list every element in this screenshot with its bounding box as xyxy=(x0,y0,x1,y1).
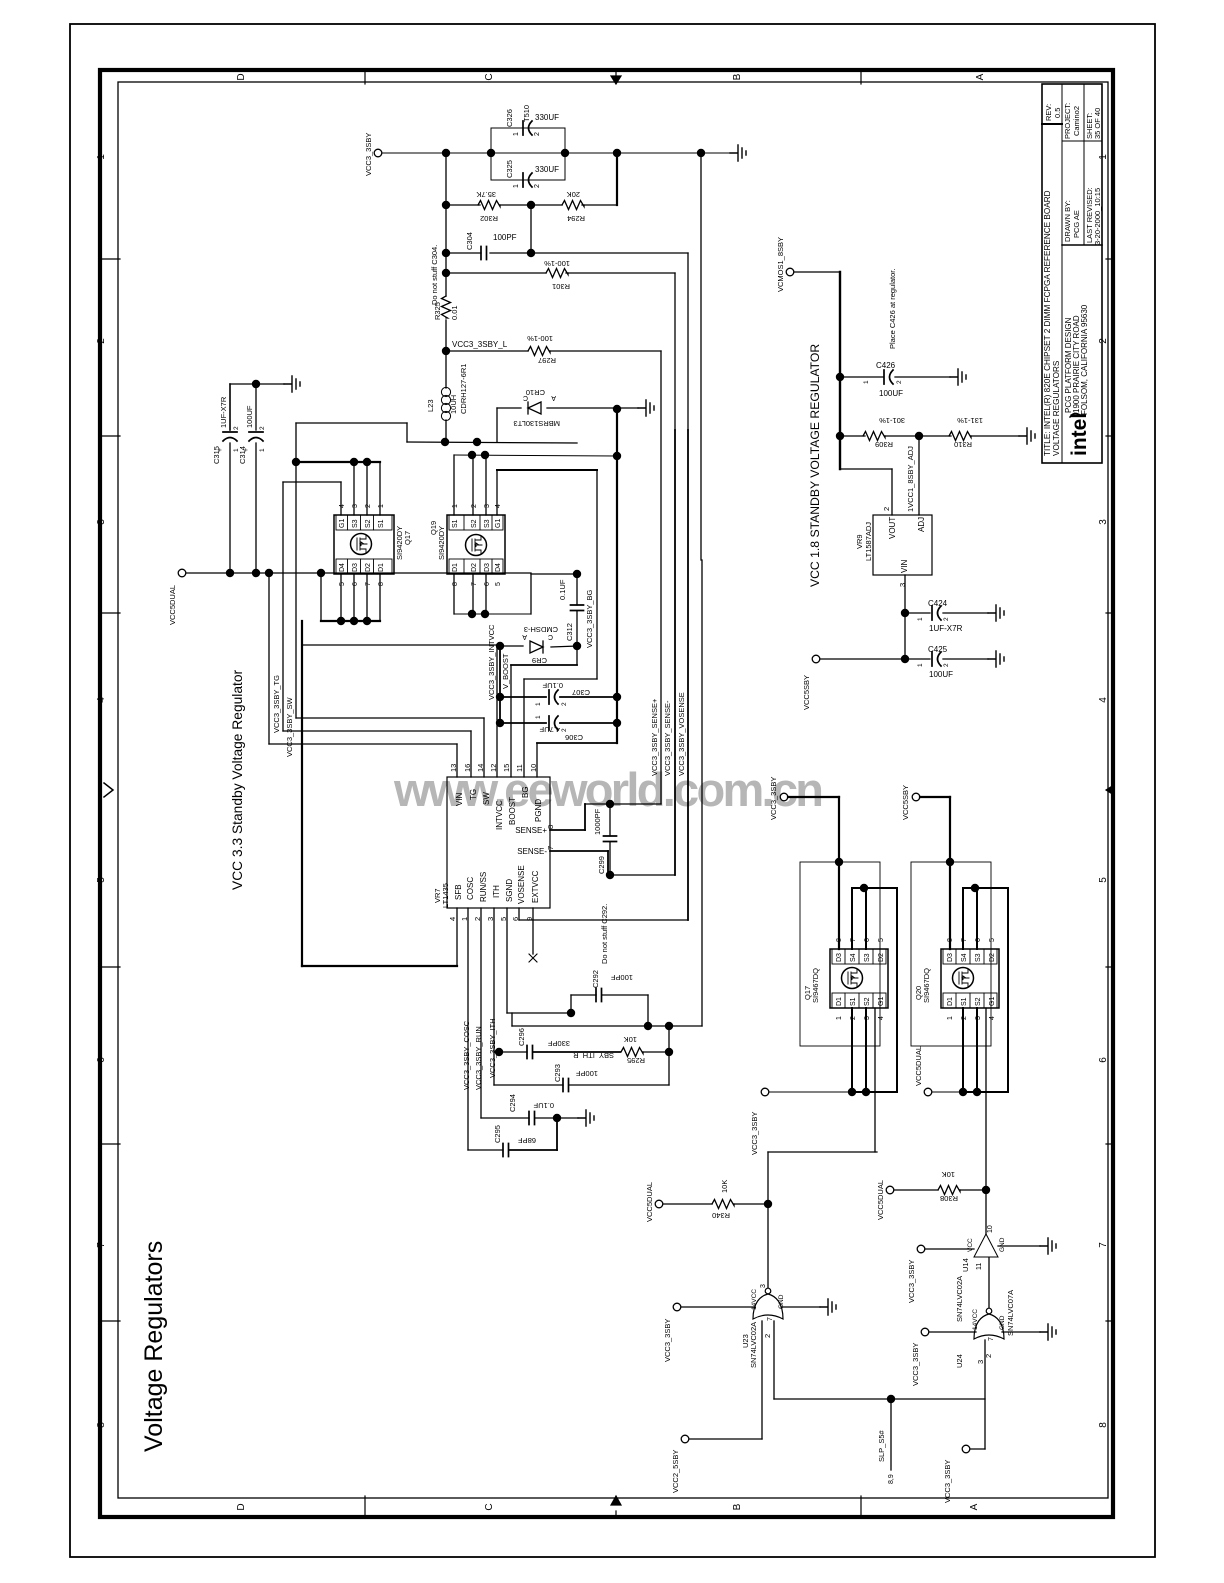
svg-text:VCC5DUAL: VCC5DUAL xyxy=(168,585,177,625)
svg-text:2: 2 xyxy=(534,132,541,136)
svg-text:S2: S2 xyxy=(864,997,871,1006)
capacitor C299 1000PF xyxy=(609,804,611,836)
svg-text:PROJECT:: PROJECT: xyxy=(1063,103,1072,139)
svg-text:2: 2 xyxy=(943,617,950,621)
svg-text:131-1%: 131-1% xyxy=(957,416,983,425)
svg-text:8: 8 xyxy=(452,582,459,586)
wire ADJ xyxy=(918,436,920,515)
wire EXTVCC no-connect xyxy=(532,908,534,954)
svg-text:CR9: CR9 xyxy=(532,656,547,665)
svg-text:VCC5SBY: VCC5SBY xyxy=(802,675,811,710)
svg-text:4: 4 xyxy=(1098,697,1109,703)
svg-text:330UF: 330UF xyxy=(535,113,559,122)
svg-text:VCC3_3SBY_L: VCC3_3SBY_L xyxy=(452,340,508,349)
wire PGND ground column xyxy=(616,409,618,743)
svg-text:VCC 3.3 Standby Voltage Regula: VCC 3.3 Standby Voltage Regulator xyxy=(230,669,245,890)
node VCC5DUAL at R340 xyxy=(655,1200,663,1208)
svg-text:15: 15 xyxy=(502,764,511,772)
capacitor C307 0.1UF xyxy=(500,696,546,698)
svg-text:2: 2 xyxy=(365,504,372,508)
wire BOOST row xyxy=(576,646,578,665)
node VCC3_3SBY at U24 input xyxy=(921,1328,929,1336)
svg-text:0.1UF: 0.1UF xyxy=(533,1101,554,1110)
svg-text:1: 1 xyxy=(513,184,520,188)
svg-text:1UF-X7R: 1UF-X7R xyxy=(219,396,228,428)
svg-text:REV:: REV: xyxy=(1044,104,1053,121)
svg-text:U14: U14 xyxy=(961,1258,970,1272)
svg-text:SW: SW xyxy=(482,792,491,805)
svg-text:10K: 10K xyxy=(942,1170,955,1179)
svg-text:VCC3_3SBY_TG: VCC3_3SBY_TG xyxy=(272,675,281,733)
svg-text:D3: D3 xyxy=(352,563,359,572)
ground at C315/C314 xyxy=(284,376,300,392)
long vertical net wire x702 xyxy=(700,153,702,560)
svg-text:SGND: SGND xyxy=(505,879,514,902)
svg-text:G1: G1 xyxy=(495,519,502,528)
svg-text:4: 4 xyxy=(989,1016,996,1020)
svg-text:1: 1 xyxy=(947,1016,954,1020)
wire VIN from VCC5DUAL xyxy=(268,573,270,744)
svg-text:2: 2 xyxy=(882,507,891,511)
node VCC3_3SBY at Q17 top xyxy=(780,793,788,801)
op-amp U VR7 LT1435 box xyxy=(447,777,550,908)
svg-text:CMDSH-3: CMDSH-3 xyxy=(524,625,558,634)
junction dot CR10 ground xyxy=(613,405,621,413)
wire U24 input 2 xyxy=(929,1331,976,1333)
svg-text:100-1%: 100-1% xyxy=(544,259,570,268)
wire Q20 source loop xyxy=(960,888,1008,1092)
capacitor C295 68PF xyxy=(467,908,469,1150)
svg-text:VCC3_3SBY: VCC3_3SBY xyxy=(907,1260,916,1303)
svg-text:5: 5 xyxy=(1098,877,1109,883)
svg-text:R308: R308 xyxy=(940,1194,958,1203)
transistor Q20 SI9467DQ outer box xyxy=(911,862,991,1046)
wire U23 input 1 xyxy=(681,1306,755,1308)
svg-text:R301: R301 xyxy=(552,282,570,291)
svg-text:1: 1 xyxy=(1098,154,1109,160)
svg-text:6: 6 xyxy=(484,582,491,586)
wire U24 output to U14 xyxy=(988,1258,990,1308)
wire VOSENSE row xyxy=(518,908,520,920)
svg-text:12: 12 xyxy=(489,764,498,772)
svg-text:C293: C293 xyxy=(553,1064,562,1082)
svg-text:SI9420DY: SI9420DY xyxy=(437,526,446,560)
svg-text:4: 4 xyxy=(96,697,107,703)
svg-text:8,9: 8,9 xyxy=(888,1474,895,1484)
wire SENSE- to C299 xyxy=(550,850,608,852)
svg-text:5: 5 xyxy=(495,582,502,586)
svg-text:8: 8 xyxy=(96,1422,107,1428)
svg-text:VCC5SBY: VCC5SBY xyxy=(901,785,910,820)
svg-text:1000PF: 1000PF xyxy=(593,808,602,835)
svg-text:D: D xyxy=(236,1503,247,1510)
svg-text:7: 7 xyxy=(988,1337,995,1341)
svg-text:11: 11 xyxy=(976,1263,983,1270)
inductor L23 10UH CDRH127-6R1 xyxy=(445,351,447,388)
net SLP_S5# xyxy=(890,1399,892,1470)
svg-text:CR10: CR10 xyxy=(526,388,545,397)
svg-text:1: 1 xyxy=(836,1016,843,1020)
svg-text:10: 10 xyxy=(987,1225,994,1233)
wire R297 row xyxy=(446,350,528,352)
svg-text:16: 16 xyxy=(463,764,472,772)
svg-text:100PF: 100PF xyxy=(493,233,517,242)
svg-text:SN74LVC02A: SN74LVC02A xyxy=(955,1276,964,1322)
regulator VR9 LT1587ADJ box xyxy=(873,515,932,575)
svg-text:S1: S1 xyxy=(378,519,385,528)
frame tick marks xyxy=(100,258,120,260)
svg-text:PGND: PGND xyxy=(534,799,543,822)
wire Q20 gate junction to U14 xyxy=(985,1190,987,1234)
capacitor C293 100PF xyxy=(493,1052,495,1085)
capacitor C314 100UF xyxy=(255,384,257,430)
capacitor C424 1UF-X7R xyxy=(905,612,930,614)
svg-text:VCC3_3SBY_INTVCC: VCC3_3SBY_INTVCC xyxy=(487,624,496,700)
svg-text:5: 5 xyxy=(989,938,996,942)
svg-text:VCMOS1_8SBY: VCMOS1_8SBY xyxy=(776,237,785,292)
svg-text:2: 2 xyxy=(534,184,541,188)
svg-text:7: 7 xyxy=(365,582,372,586)
svg-text:1: 1 xyxy=(917,663,924,667)
wire Q17 source loop xyxy=(849,888,897,1092)
svg-text:Voltage Regulators: Voltage Regulators xyxy=(140,1241,168,1452)
svg-text:C326: C326 xyxy=(505,109,514,127)
capacitor C306 4.7UF xyxy=(500,722,546,724)
svg-text:2: 2 xyxy=(96,338,107,344)
svg-text:100UF: 100UF xyxy=(929,670,953,679)
resistor R309 301-1% xyxy=(863,432,885,441)
svg-text:+: + xyxy=(217,448,224,452)
svg-text:+: + xyxy=(243,448,250,452)
node VCC5SBY xyxy=(812,655,820,663)
svg-text:2: 2 xyxy=(943,663,950,667)
svg-text:VCC3_3SBY_SENSE-: VCC3_3SBY_SENSE- xyxy=(663,700,672,776)
svg-text:VCC: VCC xyxy=(967,1238,974,1252)
svg-text:D4: D4 xyxy=(339,563,346,572)
svg-text:COSC: COSC xyxy=(466,877,475,900)
long vertical net wire SENSE+ x661 xyxy=(660,351,662,804)
wire Q19 drain to C312 xyxy=(530,574,532,614)
svg-text:D2: D2 xyxy=(365,563,372,572)
ground at CR10 xyxy=(638,400,654,416)
resistor R302 35.7K xyxy=(478,201,500,210)
svg-text:D3: D3 xyxy=(947,953,954,962)
svg-text:EXTVCC: EXTVCC xyxy=(531,870,540,903)
svg-text:100UF: 100UF xyxy=(245,405,254,428)
svg-text:C312: C312 xyxy=(565,623,574,641)
svg-text:V_BOOST: V_BOOST xyxy=(501,653,510,689)
svg-text:13: 13 xyxy=(449,764,458,772)
node VCC3_3SBY at Q17 bottom xyxy=(761,1088,769,1096)
svg-text:330UF: 330UF xyxy=(535,165,559,174)
junction dot R302/R294 xyxy=(527,201,535,209)
svg-text:PCG AE: PCG AE xyxy=(1072,210,1081,238)
buffer U14 SN74LVC07A xyxy=(974,1234,998,1257)
svg-text:R325: R325 xyxy=(433,302,442,320)
svg-text:C292: C292 xyxy=(591,970,600,988)
resistor R340 10K xyxy=(663,1203,712,1205)
resistor R294 20K xyxy=(562,201,584,210)
svg-text:0.01: 0.01 xyxy=(450,305,459,320)
svg-text:G1: G1 xyxy=(878,997,885,1006)
svg-text:R295: R295 xyxy=(627,1056,645,1065)
svg-text:A: A xyxy=(969,1503,980,1510)
svg-text:Do not stuff C304.: Do not stuff C304. xyxy=(430,245,439,305)
svg-text:3-20-2000_10:15: 3-20-2000_10:15 xyxy=(1093,188,1102,245)
svg-text:SENSE-: SENSE- xyxy=(517,847,547,856)
svg-text:SN74LVC07A: SN74LVC07A xyxy=(1006,1290,1015,1336)
svg-text:S3: S3 xyxy=(484,519,491,528)
wire TG net to pin 16 xyxy=(283,730,471,732)
svg-text:VCC3_3SBY: VCC3_3SBY xyxy=(911,1343,920,1386)
wire R340 junction to U23 output xyxy=(767,1204,769,1288)
svg-text:S4: S4 xyxy=(961,953,968,962)
svg-text:D2: D2 xyxy=(878,953,885,962)
svg-text:35.7K: 35.7K xyxy=(476,190,496,199)
svg-text:R297: R297 xyxy=(538,356,556,365)
svg-text:C304: C304 xyxy=(465,232,474,250)
svg-text:Place C426 at regulator.: Place C426 at regulator. xyxy=(888,269,897,349)
svg-text:10K: 10K xyxy=(624,1035,637,1044)
svg-text:VOUT: VOUT xyxy=(888,517,897,539)
svg-text:VCC3_3SBY_BG: VCC3_3SBY_BG xyxy=(585,589,594,648)
svg-text:CDRH127-6R1: CDRH127-6R1 xyxy=(459,364,468,414)
inner thin border xyxy=(118,82,1108,1498)
svg-text:VCC3_3SBY: VCC3_3SBY xyxy=(663,1319,672,1362)
svg-text:1: 1 xyxy=(535,702,542,706)
svg-text:S2: S2 xyxy=(975,997,982,1006)
node VCC3_3SBY at U14 input xyxy=(917,1245,925,1253)
node VCC5DUAL at Q20 bottom xyxy=(924,1088,932,1096)
wire SENSE+ to C299 xyxy=(550,829,585,831)
wire C304 row xyxy=(445,205,447,253)
svg-text:4.7UF: 4.7UF xyxy=(539,725,560,734)
svg-text:100PF: 100PF xyxy=(575,1069,598,1078)
svg-text:VCC3_3SBY_VOSENSE: VCC3_3SBY_VOSENSE xyxy=(677,692,686,776)
svg-text:SENSE+: SENSE+ xyxy=(515,826,547,835)
svg-text:301-1%: 301-1% xyxy=(879,416,905,425)
svg-text:C294: C294 xyxy=(508,1094,517,1112)
wire R309 R310 row xyxy=(836,432,844,440)
wire SGND row xyxy=(506,908,508,1013)
transistor Q17 SI9420DY package xyxy=(334,515,394,574)
svg-text:LT1435: LT1435 xyxy=(441,883,450,908)
svg-text:7: 7 xyxy=(546,846,555,850)
svg-text:14VCC: 14VCC xyxy=(972,1309,979,1330)
svg-text:MBRS130LT3: MBRS130LT3 xyxy=(513,419,560,428)
frame arrow left xyxy=(104,783,113,797)
svg-text:VCC3_3SBY: VCC3_3SBY xyxy=(769,777,778,820)
wire SW net xyxy=(295,423,297,718)
svg-text:BOOST: BOOST xyxy=(508,797,517,825)
svg-text:S3: S3 xyxy=(864,953,871,962)
svg-text:SBY_ITH_R: SBY_ITH_R xyxy=(573,1051,614,1060)
svg-text:SFB: SFB xyxy=(454,884,463,900)
svg-text:C295: C295 xyxy=(493,1125,502,1143)
svg-text:4: 4 xyxy=(495,504,502,508)
svg-text:R310: R310 xyxy=(954,440,972,449)
wire BG row xyxy=(524,678,597,680)
resistor R325 0.01 vertical xyxy=(445,273,447,296)
node VCC5SBY at Q20 top xyxy=(912,793,920,801)
capacitor C294 0.1UF with ground xyxy=(480,908,482,1118)
long vertical net wire SENSE- x675 xyxy=(674,273,676,430)
svg-text:GND: GND xyxy=(999,1237,1006,1252)
svg-text:330PF: 330PF xyxy=(547,1039,570,1048)
svg-text:68PF: 68PF xyxy=(518,1136,536,1145)
svg-text:20K: 20K xyxy=(567,190,580,199)
wire VCC3_3SBY rail xyxy=(382,152,730,154)
svg-text:6: 6 xyxy=(1098,1057,1109,1063)
transistor Q19 SI9420DY package xyxy=(447,515,505,574)
svg-text:VCC 1.8 STANDBY VOLTAGE REGUL: VCC 1.8 STANDBY VOLTAGE REGULATOR xyxy=(808,344,822,587)
wire Q19 gate to BG xyxy=(496,470,498,515)
svg-text:D1: D1 xyxy=(836,997,843,1006)
svg-text:0.5: 0.5 xyxy=(1053,108,1062,118)
svg-text:G1: G1 xyxy=(989,997,996,1006)
ground at top rail xyxy=(730,145,746,161)
svg-text:D3: D3 xyxy=(836,953,843,962)
frame arrow top xyxy=(611,70,621,84)
svg-text:1: 1 xyxy=(863,380,870,384)
gate U24 SN74LVC02A xyxy=(974,1314,1004,1339)
svg-text:2: 2 xyxy=(259,426,266,430)
svg-text:C425: C425 xyxy=(928,645,948,654)
junction dots VCC5DUAL rail xyxy=(226,569,234,577)
junction dot C304 xyxy=(442,249,450,257)
svg-text:VIN: VIN xyxy=(455,792,464,806)
node VCC5DUAL at R308 xyxy=(886,1186,894,1194)
svg-text:G1: G1 xyxy=(339,519,346,528)
junction dots on VCC3_3SBY rail xyxy=(442,149,450,157)
wire ITH row xyxy=(493,908,495,1052)
long vertical net wire VOSENSE x688 xyxy=(687,253,689,430)
node VCC3_3SBY_L junction xyxy=(442,347,450,355)
capacitor C326 330UF xyxy=(523,121,532,135)
svg-text:D: D xyxy=(236,73,247,80)
svg-text:3: 3 xyxy=(1098,519,1109,525)
svg-text:3: 3 xyxy=(96,519,107,525)
svg-text:5: 5 xyxy=(96,877,107,883)
frame arrow right xyxy=(1106,785,1114,795)
svg-text:A: A xyxy=(975,73,986,80)
svg-text:S1: S1 xyxy=(850,997,857,1006)
wire Q17 gate to R340 junction xyxy=(768,1151,877,1153)
svg-text:C426: C426 xyxy=(876,361,896,370)
svg-text:4: 4 xyxy=(448,917,457,921)
svg-text:C: C xyxy=(484,1503,495,1510)
node VCC3_3SBY at U24 pin3 xyxy=(962,1445,970,1453)
svg-text:VCC5DUAL: VCC5DUAL xyxy=(914,1046,923,1086)
wire VCMOS1_8SBY to VOUT xyxy=(794,271,840,273)
transistor Q17 SI9467DQ outer box xyxy=(800,862,880,1046)
wire Q19 drain rail xyxy=(453,574,455,614)
svg-text:INTVCC: INTVCC xyxy=(495,800,504,830)
wire SFB net xyxy=(456,908,458,966)
svg-text:ADJ: ADJ xyxy=(917,517,926,532)
svg-text:VCC3_3SBY: VCC3_3SBY xyxy=(943,1460,952,1503)
ground at U14 xyxy=(998,1245,1040,1247)
wire R294 to rail xyxy=(616,153,618,205)
svg-text:3: 3 xyxy=(352,504,359,508)
svg-text:U24: U24 xyxy=(955,1354,964,1368)
svg-text:5: 5 xyxy=(339,582,346,586)
inner thick border xyxy=(100,70,1113,1517)
capacitor C296 330PF xyxy=(527,1046,533,1059)
svg-text:R309: R309 xyxy=(875,440,893,449)
node VCC2_5SBY xyxy=(681,1435,689,1443)
wire INTVCC decoupling riser xyxy=(499,646,501,723)
svg-text:C307: C307 xyxy=(572,688,590,697)
resistor R310 131-1% xyxy=(949,432,971,441)
svg-text:2: 2 xyxy=(233,426,240,430)
svg-text:A: A xyxy=(551,394,556,401)
gate U23 SN74LVC02A xyxy=(753,1294,783,1319)
wire VCC5DUAL rail xyxy=(186,572,531,574)
svg-text:5: 5 xyxy=(878,938,885,942)
resistor R301 100-1% xyxy=(546,269,568,278)
svg-text:VCC3_3SBY: VCC3_3SBY xyxy=(750,1112,759,1155)
svg-text:8: 8 xyxy=(378,582,385,586)
junction dot R340/U23 xyxy=(764,1200,772,1208)
svg-text:1: 1 xyxy=(378,504,385,508)
junction dot ADJ xyxy=(915,432,923,440)
wire Q17 gate xyxy=(340,482,342,515)
capacitor C292 100PF do-not-stuff xyxy=(570,995,572,1013)
wire Q17 drain feed xyxy=(838,797,840,949)
svg-text:C306: C306 xyxy=(565,733,583,742)
svg-text:S2: S2 xyxy=(471,519,478,528)
resistor R297 100-1% xyxy=(528,347,550,356)
svg-text:TITLE: INTEL(R) 820E CHIPSET 2: TITLE: INTEL(R) 820E CHIPSET 2 DIMM FCPG… xyxy=(1043,190,1052,456)
svg-text:S3: S3 xyxy=(352,519,359,528)
svg-text:C: C xyxy=(484,73,495,80)
svg-text:8: 8 xyxy=(546,825,555,829)
svg-text:VOSENSE: VOSENSE xyxy=(517,865,526,904)
svg-text:FOLSOM, CALIFORNIA 95630: FOLSOM, CALIFORNIA 95630 xyxy=(1080,304,1089,415)
wire R302 R294 row xyxy=(445,153,447,205)
svg-text:7: 7 xyxy=(96,1242,107,1248)
svg-text:4: 4 xyxy=(339,504,346,508)
svg-text:0.1UF: 0.1UF xyxy=(542,681,563,690)
diode CR9 CMDSH-3 xyxy=(500,645,523,647)
wire VIN pin down xyxy=(904,575,906,659)
svg-text:8: 8 xyxy=(1098,1422,1109,1428)
svg-text:3: 3 xyxy=(976,1360,985,1364)
ground at R310 xyxy=(1019,428,1035,444)
svg-text:VCC3_3SBY_SW: VCC3_3SBY_SW xyxy=(285,696,294,757)
svg-text:1VCC1_8SBY_ADJ: 1VCC1_8SBY_ADJ xyxy=(906,446,915,512)
ground at U23 xyxy=(781,1306,820,1308)
wire INTVCC riser to pin 12 xyxy=(496,646,498,777)
node VCMOS1_8SBY xyxy=(786,268,794,276)
svg-text:2: 2 xyxy=(561,702,568,706)
svg-text:11: 11 xyxy=(515,764,524,772)
svg-text:LT1587ADJ: LT1587ADJ xyxy=(864,522,873,561)
svg-text:VCC3_3SBY_ITH: VCC3_3SBY_ITH xyxy=(488,1018,497,1078)
svg-text:1: 1 xyxy=(96,154,107,160)
svg-text:1: 1 xyxy=(452,504,459,508)
svg-text:1: 1 xyxy=(535,715,542,719)
svg-text:SN74LVC02A: SN74LVC02A xyxy=(749,1322,758,1368)
svg-text:2: 2 xyxy=(471,504,478,508)
svg-text:DRAWN BY:: DRAWN BY: xyxy=(1063,200,1072,242)
svg-text:RUN/SS: RUN/SS xyxy=(479,872,488,902)
svg-text:10: 10 xyxy=(529,764,538,772)
wire R301 row xyxy=(445,253,447,273)
ground at C424 xyxy=(988,605,1004,621)
svg-text:S3: S3 xyxy=(975,953,982,962)
